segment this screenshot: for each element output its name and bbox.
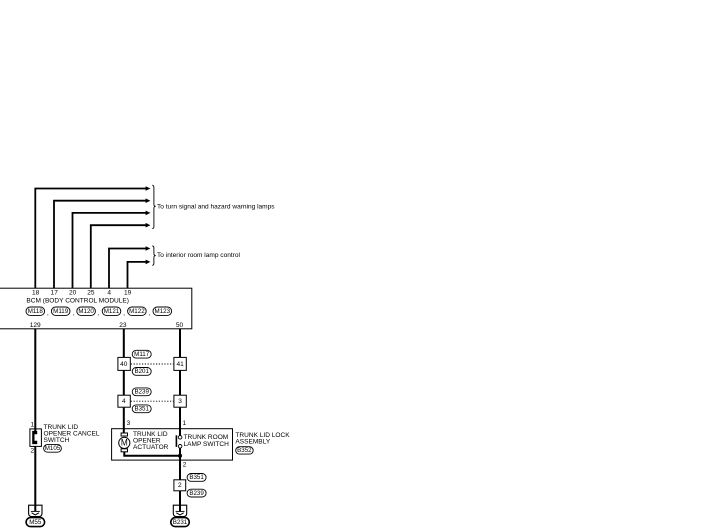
svg-text:M122: M122 (129, 308, 145, 315)
svg-text:B352: B352 (237, 447, 252, 454)
svg-text:B231: B231 (173, 519, 188, 526)
svg-text:M120: M120 (78, 308, 94, 315)
svg-text:To turn signal and hazard warn: To turn signal and hazard warning lamps (157, 204, 275, 211)
svg-text:M121: M121 (104, 308, 120, 315)
svg-text:2: 2 (183, 462, 187, 469)
svg-text:19: 19 (124, 289, 132, 296)
svg-text:ASSEMBLY: ASSEMBLY (235, 439, 270, 446)
svg-text:3: 3 (178, 398, 182, 405)
svg-text:LAMP SWITCH: LAMP SWITCH (184, 441, 230, 448)
svg-text:23: 23 (119, 322, 127, 329)
svg-text:41: 41 (176, 361, 184, 368)
svg-text:40: 40 (120, 361, 128, 368)
svg-text:,: , (98, 310, 100, 317)
svg-text:M118: M118 (28, 308, 44, 315)
svg-text:B351: B351 (134, 406, 149, 413)
svg-text:18: 18 (32, 289, 40, 296)
svg-text:25: 25 (87, 289, 95, 296)
svg-text:,: , (47, 310, 49, 317)
svg-text:M117: M117 (134, 351, 150, 358)
svg-text:B201: B201 (134, 368, 149, 375)
svg-text:1: 1 (30, 421, 34, 428)
svg-text:4: 4 (107, 289, 111, 296)
svg-text:4: 4 (122, 398, 126, 405)
svg-text:M123: M123 (155, 308, 171, 315)
svg-text:B239: B239 (134, 389, 149, 396)
svg-text:M55: M55 (29, 519, 42, 526)
svg-text:2: 2 (178, 482, 182, 489)
svg-text:B239: B239 (189, 490, 204, 497)
svg-text:50: 50 (176, 322, 184, 329)
svg-text:M105: M105 (45, 445, 61, 452)
svg-text:3: 3 (127, 420, 131, 427)
svg-text:B351: B351 (189, 474, 204, 481)
svg-text:20: 20 (69, 289, 77, 296)
svg-text:,: , (149, 310, 151, 317)
svg-text:ACTUATOR: ACTUATOR (133, 444, 169, 451)
svg-text:M119: M119 (53, 308, 69, 315)
svg-text:To interior room lamp control: To interior room lamp control (157, 252, 241, 259)
svg-text:,: , (72, 310, 74, 317)
svg-text:BCM (BODY CONTROL MODULE): BCM (BODY CONTROL MODULE) (26, 297, 129, 304)
svg-text:M: M (121, 438, 128, 449)
svg-text:129: 129 (30, 322, 41, 329)
svg-text:2: 2 (30, 447, 34, 454)
svg-text:SWITCH: SWITCH (44, 437, 70, 444)
svg-text:17: 17 (51, 289, 59, 296)
svg-text:,: , (123, 310, 125, 317)
svg-text:1: 1 (183, 420, 187, 427)
